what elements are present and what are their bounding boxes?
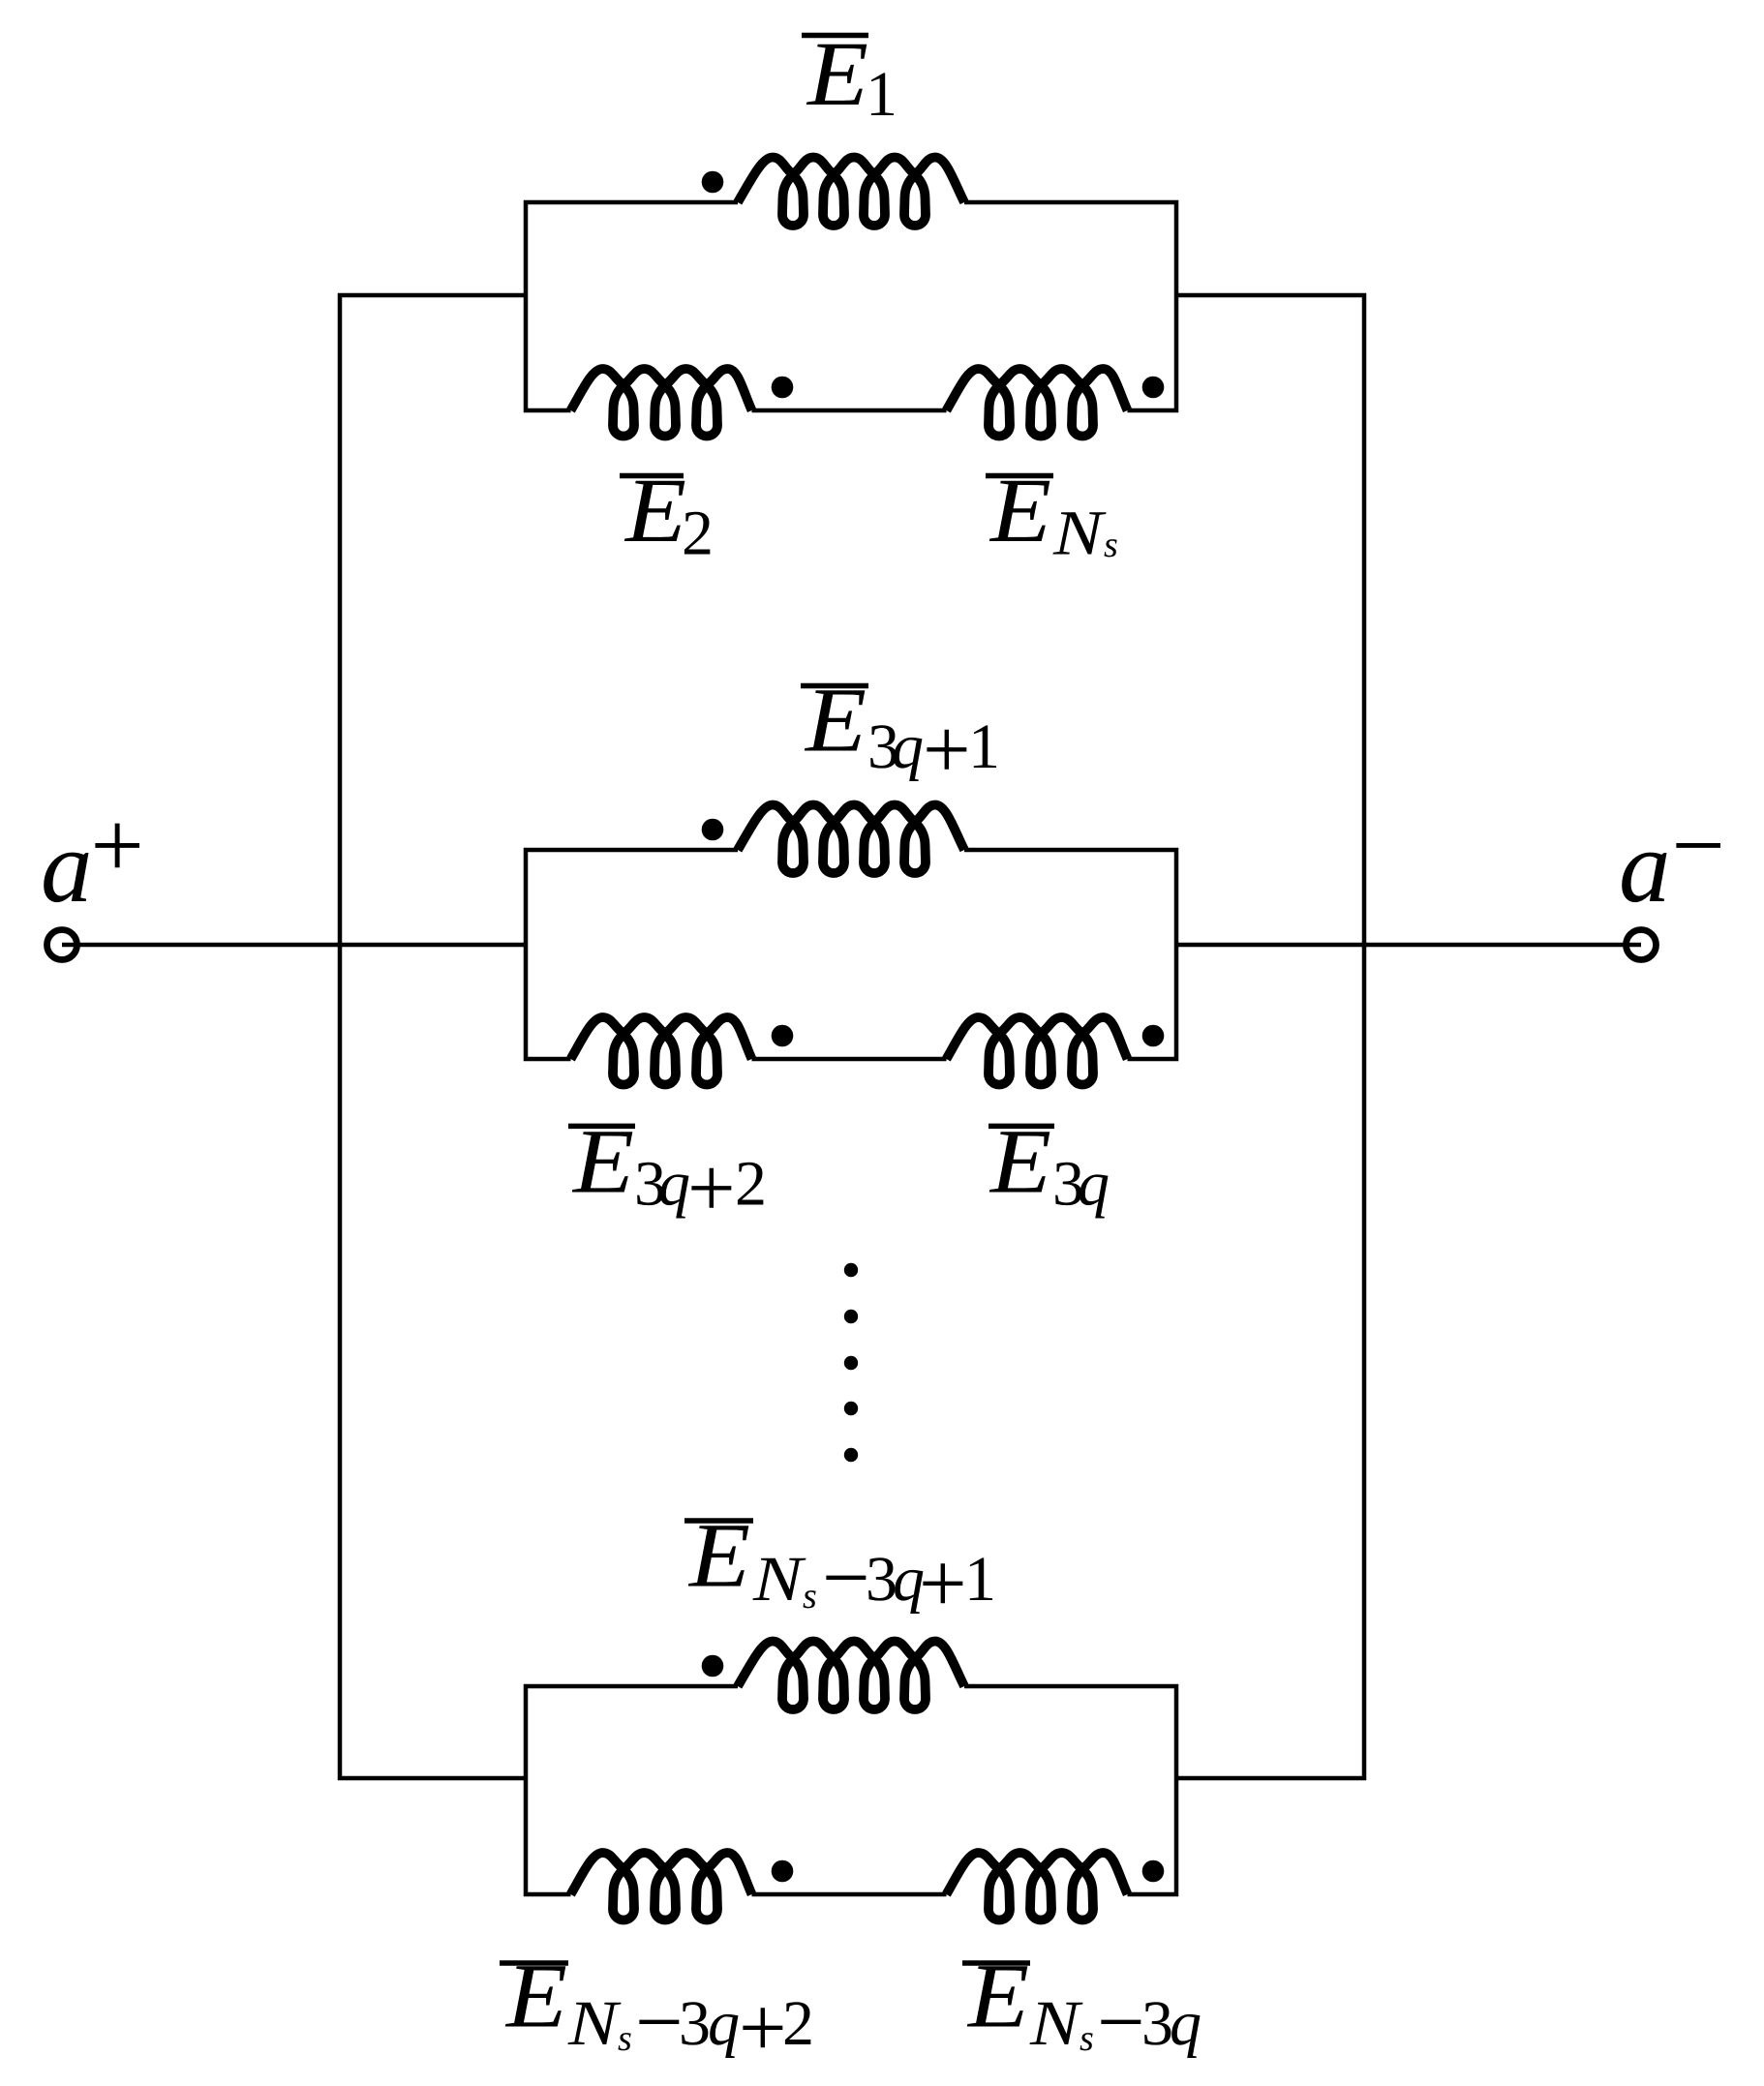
svg-text:−: −: [635, 1976, 684, 2070]
svg-text:1: 1: [968, 711, 1000, 782]
label E3q+2: [568, 1109, 767, 1235]
wire: group 3 bottom middle segment: [752, 1892, 947, 1897]
label ENs-3q+2: [500, 1945, 814, 2075]
svg-text:3: 3: [679, 1988, 711, 2059]
label a- (terminal): [1619, 794, 1725, 924]
wire: right bus with stubs to groups 1 and 3: [1176, 295, 1364, 1778]
svg-text:E: E: [504, 1945, 567, 2047]
svg-text:N: N: [752, 1544, 807, 1615]
polarity dot of ENs-3q+2: [772, 1860, 794, 1883]
wire: group 2 left edge and corners: [526, 850, 738, 1059]
inductor E3q+2 (bottom-left): [571, 1017, 752, 1085]
inductor E3q (bottom-right): [947, 1017, 1128, 1085]
svg-text:E: E: [687, 1504, 750, 1607]
polarity dot of ENs: [1142, 377, 1165, 399]
svg-text:q: q: [1170, 1988, 1201, 2059]
svg-text:a: a: [1619, 810, 1671, 924]
svg-text:1: 1: [964, 1544, 996, 1615]
svg-text:q: q: [658, 1149, 690, 1220]
svg-text:2: 2: [735, 1149, 767, 1220]
wire: a+ lead to left bus: [62, 943, 340, 948]
inductor ENs (bottom-right): [947, 369, 1128, 437]
polarity dot of E3q+2: [772, 1025, 794, 1047]
wire: group 2 bottom middle segment: [752, 1057, 947, 1062]
wire: left bus to group 2 left edge: [340, 943, 526, 948]
polarity dot of ENs-3q: [1142, 1860, 1165, 1883]
wire: group 3 left edge and corners: [526, 1686, 738, 1894]
svg-text:E: E: [988, 459, 1051, 561]
svg-text:2: 2: [782, 1988, 814, 2059]
svg-text:+: +: [923, 704, 971, 798]
label a+ (terminal): [41, 794, 144, 924]
svg-text:q: q: [708, 1988, 740, 2059]
wire: group 1 bottom middle segment: [752, 408, 947, 413]
wire: group 3 right edge and corners: [964, 1686, 1176, 1894]
svg-text:a: a: [41, 810, 93, 924]
svg-text:+: +: [739, 1981, 787, 2075]
wire: left bus with stubs to groups 1 and 3: [340, 295, 526, 1778]
ellipsis dots between group 2 and group 3: [844, 1263, 858, 1277]
svg-text:q: q: [1078, 1149, 1110, 1220]
svg-text:E: E: [988, 1109, 1051, 1212]
label E3q+1: [801, 669, 1000, 798]
inductor E1 (top branch): [738, 158, 964, 227]
wire: right bus to a- lead: [1364, 943, 1641, 948]
inductor ENs-3q (bottom-right): [947, 1853, 1128, 1920]
svg-text:E: E: [571, 1109, 634, 1212]
svg-text:−: −: [822, 1531, 870, 1625]
svg-text:N: N: [1029, 1988, 1084, 2059]
svg-text:E: E: [623, 459, 686, 561]
svg-text:E: E: [966, 1945, 1029, 2047]
label ENs-3q: [962, 1945, 1201, 2070]
inductor E3q+1 (top branch): [738, 805, 964, 874]
wire: group 2 right edge and corners: [964, 850, 1176, 1059]
label ENs: [986, 459, 1117, 569]
terminal a+: [47, 930, 77, 960]
label E2: [620, 459, 714, 569]
label E1: [802, 22, 897, 130]
polarity dot of E1: [702, 171, 724, 194]
svg-text:+: +: [687, 1142, 736, 1236]
polarity dot of E3q+1: [702, 819, 724, 841]
svg-text:−: −: [1672, 794, 1725, 898]
svg-text:+: +: [91, 794, 144, 898]
wire: group 1 left edge and corners: [526, 202, 738, 410]
svg-text:1: 1: [866, 59, 897, 130]
terminal a-: [1627, 930, 1657, 960]
polarity dot of E2: [772, 377, 794, 399]
inductor ENs-3q+1 (top branch): [738, 1642, 964, 1710]
inductor E2 (bottom-left): [571, 369, 752, 437]
label E3q: [988, 1109, 1110, 1219]
inductor ENs-3q+2 (bottom-left): [571, 1853, 752, 1920]
svg-text:q: q: [892, 711, 924, 782]
svg-text:N: N: [567, 1988, 623, 2059]
svg-text:2: 2: [682, 499, 714, 569]
polarity dot of ENs-3q+1: [702, 1655, 724, 1678]
polarity dot of E3q: [1142, 1025, 1165, 1047]
wire: group 2 right edge to right bus: [1176, 943, 1364, 948]
svg-text:+: +: [919, 1537, 967, 1631]
svg-text:E: E: [804, 669, 867, 771]
wire: group 1 right edge and corners: [964, 202, 1176, 410]
label ENs-3q+1: [684, 1504, 996, 1632]
svg-text:N: N: [1052, 499, 1108, 569]
svg-text:E: E: [806, 22, 868, 125]
svg-text:−: −: [1097, 1976, 1145, 2070]
